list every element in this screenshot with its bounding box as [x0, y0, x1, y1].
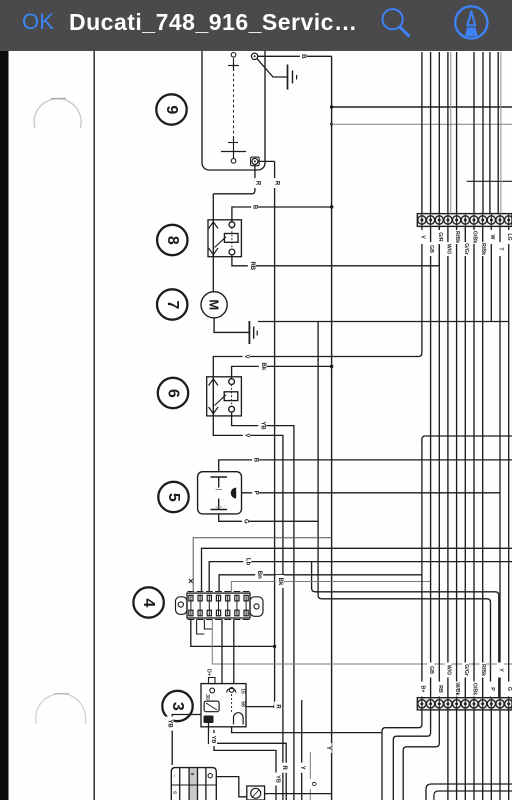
ignition switch arc contact — [227, 688, 237, 692]
svg-text:7: 7 — [164, 300, 181, 309]
component box bottom right outer — [426, 784, 512, 800]
svg-text:YB: YB — [259, 421, 265, 430]
wire switch bottom loop — [232, 727, 382, 733]
markup pen icon — [453, 4, 490, 41]
wire relay 8 coil to bus — [232, 207, 332, 223]
label V relay 6 bottom — [243, 430, 250, 440]
fuse box right tab — [250, 597, 263, 617]
svg-text:W/G: W/G — [445, 244, 451, 255]
label R bottom — [281, 763, 288, 773]
search icon — [377, 4, 413, 40]
fuse box body — [187, 593, 250, 618]
svg-text:B+: B+ — [419, 686, 425, 693]
svg-text:B: B — [300, 54, 307, 59]
svg-text:Y: Y — [299, 766, 305, 770]
wire fuse drop 3 — [204, 620, 212, 630]
wire fuse riser 5 Bk gray — [231, 582, 430, 593]
wire relay 8 RB output — [232, 255, 439, 266]
scanner dark edge strip — [0, 51, 9, 800]
binder hole arc upper — [34, 99, 81, 128]
label B relay 8 — [251, 202, 258, 212]
svg-text:R: R — [281, 766, 287, 771]
wire relay 6 YB output — [232, 412, 294, 800]
switch block tiny markers — [173, 773, 213, 794]
label G regulator — [242, 516, 249, 526]
wire horizontal right stub — [467, 180, 512, 182]
wire motor to ground — [214, 318, 249, 333]
svg-text:6: 6 — [165, 389, 182, 398]
harness wires above strip 1 — [422, 52, 501, 214]
svg-text:V: V — [243, 433, 249, 437]
relay 8 dashed link — [231, 228, 233, 250]
label Bk gray — [276, 575, 284, 588]
label YB bottom — [209, 733, 217, 746]
motor M circle — [201, 292, 227, 318]
wire battery neg down to relay 8 — [213, 165, 255, 194]
fuse box left tab — [176, 597, 188, 615]
svg-text:R/Bk: R/Bk — [480, 664, 486, 676]
label Bk relay 6 — [259, 360, 267, 373]
page left border edge — [93, 51, 95, 800]
connector strip 1 pins — [418, 214, 512, 226]
wire regulator P output — [242, 493, 501, 698]
svg-text:S: S — [173, 791, 178, 794]
wire fuse riser 1 — [193, 538, 331, 592]
wire relay 6 V bottom output — [213, 412, 283, 800]
svg-text:9: 9 — [163, 105, 180, 114]
wire relay 8 to motor — [212, 255, 214, 292]
junction dots on main bus — [330, 105, 334, 368]
document title — [69, 9, 357, 36]
wire horizontal gray feed — [332, 123, 512, 125]
main bus wire vertical — [331, 56, 333, 800]
battery 9 outline — [202, 44, 265, 170]
item label 3 — [162, 691, 192, 721]
regulator capacitor top symbol — [211, 477, 228, 490]
svg-text:RB: RB — [249, 261, 255, 270]
wire battery neg to R bus — [258, 160, 275, 162]
wire fuse drop to switch 2 — [233, 620, 235, 684]
ignition switch pin 15 — [229, 688, 234, 693]
relay 6 switch contact — [215, 395, 227, 406]
wires below strip 2 left turns — [382, 710, 422, 800]
label V relay 6 top — [243, 352, 250, 362]
wire corner feed right — [422, 436, 512, 441]
item label 7 — [157, 289, 187, 319]
svg-text:P: P — [253, 491, 259, 495]
svg-text:G: G — [506, 687, 512, 691]
svg-text:Y: Y — [325, 746, 331, 750]
svg-text:V: V — [243, 354, 249, 358]
iOS navigation bar — [0, 0, 512, 52]
wire relay 6 Bk to bus — [232, 366, 332, 378]
connector strip 2 pins — [418, 698, 512, 710]
svg-text:V: V — [419, 235, 425, 239]
svg-text:GB: GB — [428, 245, 434, 253]
svg-text:M: M — [207, 299, 222, 310]
svg-text:8: 8 — [164, 236, 181, 245]
wire ground line to right column — [258, 321, 509, 323]
wire switch R right — [246, 706, 275, 708]
ignition switch terminal box top — [209, 678, 216, 684]
svg-text:B: B — [253, 458, 259, 463]
wire relay 8 top-left pin up — [212, 194, 214, 223]
svg-text:Bk: Bk — [277, 578, 283, 586]
label P regulator — [252, 488, 259, 498]
svg-text:P: P — [489, 687, 495, 691]
svg-text:4: 4 — [140, 598, 157, 607]
item label 5 — [158, 482, 188, 512]
relay 6 dashed link — [231, 385, 233, 407]
connector strip 1 labels — [419, 230, 512, 256]
svg-text:G: G — [242, 519, 248, 524]
fuse elements — [188, 592, 250, 620]
wire fuse drop 4 gray feed — [212, 620, 512, 665]
label YB far bottom — [274, 773, 282, 786]
wire Y bottom — [301, 700, 303, 800]
svg-text:GB: GB — [428, 666, 434, 674]
svg-text:3: 3 — [169, 702, 186, 711]
wire relay 6 V top — [213, 357, 417, 379]
label R switch — [274, 702, 281, 712]
svg-text:O/Bk: O/Bk — [471, 683, 477, 695]
svg-text:G/Gr: G/Gr — [463, 243, 469, 255]
svg-text:W/Bk: W/Bk — [454, 682, 460, 695]
label YB switch left — [166, 717, 174, 731]
ground symbol motor — [249, 321, 257, 344]
relay 8 switch contact — [215, 237, 227, 248]
wire strip pin3 to RB line — [438, 226, 440, 265]
binder hole arc lower — [36, 694, 86, 724]
OK back button — [22, 9, 54, 35]
label R bus — [273, 178, 280, 188]
R bus wire vertical — [274, 161, 276, 706]
wire battery to ground diagonal — [257, 59, 287, 77]
wire fuse riser 3 Lb — [209, 562, 512, 592]
svg-text:Y: Y — [498, 668, 504, 672]
ignition switch contact blob — [204, 716, 214, 724]
wire outer loop vertical — [312, 562, 499, 698]
label R left wire — [254, 178, 261, 188]
ignition switch pin 30 — [210, 688, 215, 693]
wire grid to flasher — [216, 777, 247, 797]
ignition switch key box — [204, 701, 219, 712]
label Y near bus — [325, 743, 332, 753]
relay 6 outline — [207, 377, 242, 416]
riser x mark — [189, 579, 193, 583]
wire switch lower loop — [214, 730, 276, 800]
regulator capacitor bottom symbol — [211, 499, 228, 510]
wire switch YB left — [172, 715, 201, 766]
label YB relay 6 — [258, 419, 266, 433]
regulator side contact — [231, 488, 236, 499]
switch block 2 grid — [189, 769, 197, 800]
svg-text:R: R — [274, 181, 280, 186]
junction dot fuse drop — [273, 645, 276, 648]
relay 8 outline — [208, 220, 241, 257]
svg-text:RB: RB — [437, 685, 443, 693]
svg-text:30: 30 — [204, 694, 210, 700]
svg-text:G/Gr: G/Gr — [463, 664, 469, 676]
wire battery B+ to main bus — [258, 55, 332, 57]
wire fuse riser 2 — [202, 548, 512, 592]
label Y bottom — [298, 763, 305, 773]
label Lb — [243, 555, 251, 568]
label B battery wire — [300, 52, 307, 61]
item label 4 — [133, 587, 163, 617]
svg-text:O: O — [310, 782, 316, 787]
svg-text:W/G: W/G — [445, 665, 451, 676]
svg-text:Lb: Lb — [244, 558, 250, 566]
ground symbol battery — [288, 65, 297, 90]
wire switch blob loop — [209, 723, 287, 800]
wires below strip 2 straight — [448, 710, 509, 800]
svg-text:Bk: Bk — [260, 363, 266, 371]
svg-text:G/R: G/R — [437, 232, 443, 242]
wire horizontal top feed — [332, 106, 512, 108]
svg-text:YB: YB — [167, 719, 173, 728]
svg-text:YB: YB — [275, 775, 281, 783]
battery dashed center line — [233, 58, 235, 147]
regulator 5 outline — [198, 472, 242, 514]
svg-text:W: W — [489, 235, 495, 240]
wire fuse drop to switch — [221, 620, 223, 684]
label Bn — [255, 568, 263, 581]
battery plus terminal top — [228, 53, 239, 72]
ignition switch dashed actuator — [231, 694, 233, 712]
svg-text:R/Bk: R/Bk — [454, 231, 460, 243]
connector strip 2 bar — [417, 698, 512, 710]
relay 8 pins — [209, 220, 235, 257]
wire regulator G output — [219, 514, 318, 521]
component box bottom right inner — [434, 791, 512, 800]
svg-text:15: 15 — [240, 688, 246, 694]
battery positive pin — [251, 53, 257, 59]
svg-text:58: 58 — [240, 701, 246, 707]
svg-text:Bn: Bn — [256, 571, 262, 579]
svg-text:LG: LG — [506, 233, 512, 240]
wire strip pin1 down to V line — [416, 226, 422, 356]
ignition switch 3 outline — [201, 684, 246, 727]
item label 9 — [156, 94, 186, 124]
wire fuse riser 4 Bn — [219, 575, 422, 592]
svg-text:G/Bk: G/Bk — [471, 231, 477, 243]
label RB relay 8 — [248, 259, 256, 273]
ignition switch hook contact — [234, 713, 244, 725]
wire fuse drop 1 — [191, 620, 275, 647]
item label 6 — [158, 378, 188, 408]
battery negative pin — [251, 157, 260, 166]
wire flasher right — [265, 793, 332, 795]
svg-text:R/Bk: R/Bk — [480, 243, 486, 255]
wire O bottom gray — [309, 752, 316, 800]
relay 8 coil box — [224, 234, 238, 243]
relay 6 coil box — [224, 392, 238, 401]
wire regulator B output — [219, 460, 512, 472]
wire G loop vertical — [318, 322, 490, 698]
svg-text:D+: D+ — [206, 669, 212, 676]
svg-text:5: 5 — [165, 493, 182, 502]
flasher 1 box — [247, 786, 265, 800]
label B regulator — [252, 455, 259, 465]
wire fuse drop 2 — [197, 620, 205, 635]
svg-text:R: R — [255, 181, 261, 186]
svg-text:YB: YB — [210, 736, 216, 744]
connector strip 1 bar — [417, 214, 512, 227]
item label 8 — [157, 225, 187, 255]
svg-text:B: B — [252, 205, 258, 210]
relay 6 pins — [209, 377, 235, 416]
connector strip 2 labels — [419, 663, 512, 697]
harness columns between strips — [422, 226, 509, 697]
battery minus terminal bottom — [221, 137, 246, 163]
svg-text:R: R — [275, 704, 281, 709]
